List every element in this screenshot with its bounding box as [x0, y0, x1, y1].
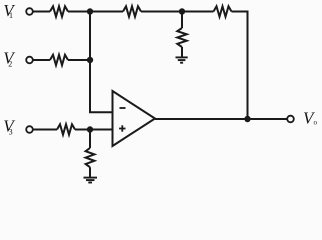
resistor R7: [86, 148, 95, 167]
svg-text:1: 1: [9, 11, 13, 20]
node B junction: [179, 8, 185, 14]
wire R5 to node C: [68, 59, 90, 61]
svg-text:o: o: [314, 119, 318, 127]
input label V3: [3, 116, 16, 136]
resistor R3: [214, 6, 232, 16]
output label Vo: [303, 109, 318, 128]
node E junction: [244, 116, 250, 122]
wire R7 to ground: [89, 167, 91, 177]
terminal Vo: [287, 116, 294, 123]
resistor R4: [177, 28, 186, 47]
input label V2: [3, 48, 16, 68]
wire node E to output terminal: [248, 118, 287, 120]
node A junction: [87, 8, 93, 14]
wire node B to R3: [182, 11, 214, 13]
wire node D to non-inverting input: [90, 129, 113, 131]
op-amp U1: [113, 91, 156, 146]
input label V1: [3, 1, 16, 20]
wire feedback: node A down through node C to inverting input: [90, 12, 113, 113]
ground (node D leg): [84, 178, 98, 183]
wire V1 terminal to R1: [33, 11, 50, 13]
wire R2 to node B: [141, 11, 182, 13]
wire node D down to R7: [89, 130, 91, 149]
wire top-right corner down to output node: [232, 12, 248, 120]
wire node A to R2: [90, 11, 123, 13]
resistor R2: [123, 6, 141, 16]
ground (node B leg): [176, 57, 188, 62]
wire V3 terminal to R6: [33, 129, 57, 131]
node D junction: [87, 126, 93, 132]
svg-text:3: 3: [9, 127, 13, 136]
wire R4 to ground: [181, 47, 183, 57]
node C junction: [87, 57, 93, 63]
terminal V3: [26, 126, 33, 133]
resistor R5: [50, 55, 68, 65]
terminal V2: [26, 57, 33, 64]
resistor R1: [50, 6, 68, 16]
wire R1 to node A: [68, 11, 90, 13]
svg-text:2: 2: [8, 60, 12, 69]
wire node B down to R4: [181, 12, 183, 29]
terminal V1: [26, 8, 33, 15]
resistor R6: [57, 124, 75, 134]
wire R6 to node D: [75, 129, 90, 131]
wire op-amp output to node E: [155, 118, 248, 120]
wire V2 terminal to R5: [33, 59, 50, 61]
